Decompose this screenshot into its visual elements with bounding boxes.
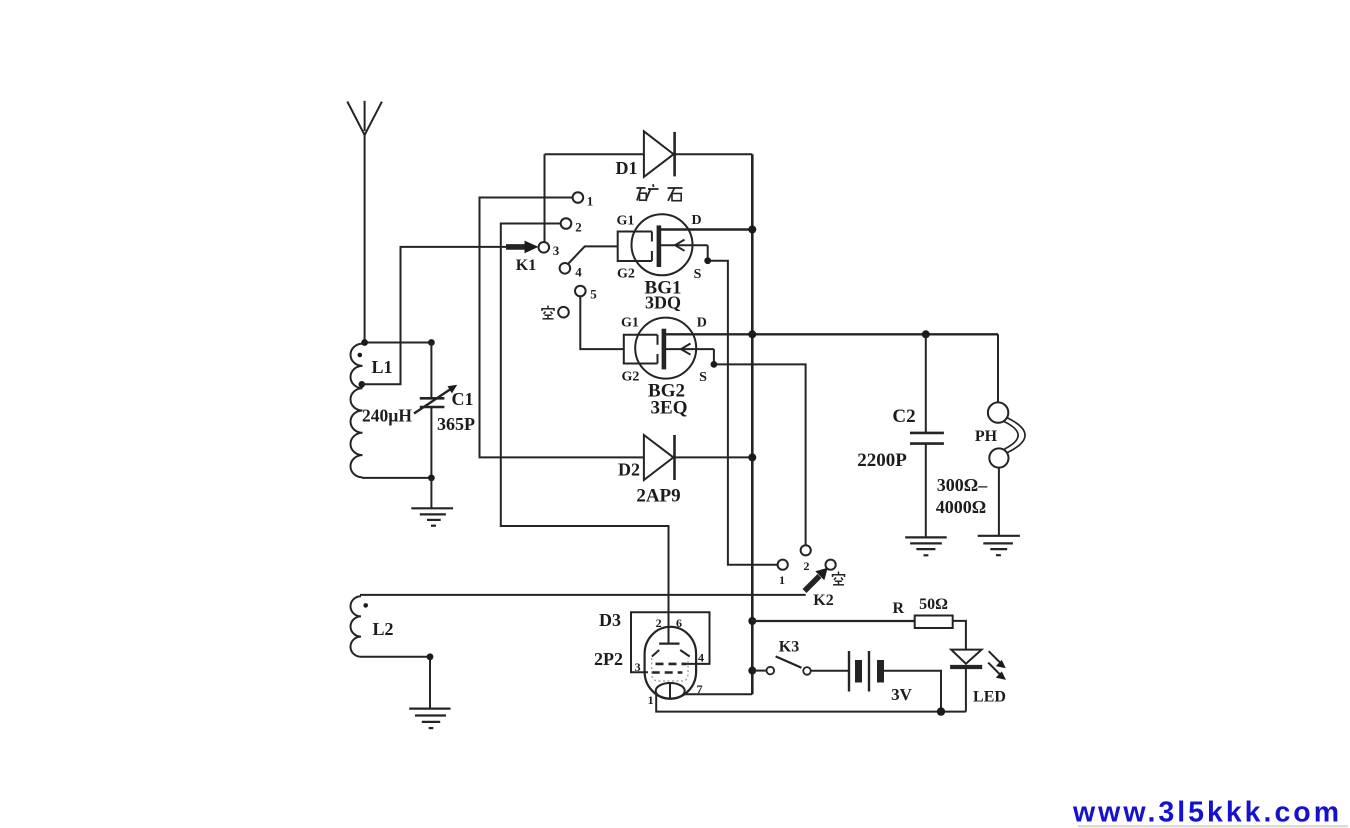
node BG2 drain on bus <box>748 330 756 338</box>
svg-text:G2: G2 <box>617 267 635 282</box>
svg-text:K3: K3 <box>779 639 799 656</box>
wire R to LED <box>953 621 966 650</box>
K2 wiper arrow <box>805 568 828 591</box>
svg-text:5: 5 <box>590 287 597 302</box>
LED <box>950 650 1006 712</box>
capacitor C1 (variable) <box>414 343 457 478</box>
switch K2 contact 2 <box>801 545 811 555</box>
transistor BG1 (dual-gate FET) <box>618 214 752 275</box>
svg-text:3V: 3V <box>891 685 913 704</box>
svg-text:G1: G1 <box>617 214 635 229</box>
node D2 cathode on bus <box>748 453 756 461</box>
svg-text:C2: C2 <box>892 406 915 427</box>
svg-text:4000Ω: 4000Ω <box>936 497 986 517</box>
svg-text:G2: G2 <box>622 370 640 385</box>
switch K1 contact 3 <box>539 242 550 253</box>
wire battery to bottom node <box>884 671 941 712</box>
svg-text:G1: G1 <box>621 316 639 331</box>
node L1 tap <box>359 381 366 388</box>
svg-text:K2: K2 <box>813 592 833 609</box>
wire L1/C1 bottom <box>362 477 431 479</box>
svg-text:3DQ: 3DQ <box>645 293 681 313</box>
svg-text:1: 1 <box>779 573 785 587</box>
node BG2 source corner <box>711 361 718 368</box>
svg-text:L2: L2 <box>372 619 393 639</box>
node L2 ground corner <box>427 653 434 660</box>
inductor L1 <box>351 344 363 478</box>
svg-text:LED: LED <box>973 689 1006 706</box>
node K3 branch on bus <box>748 667 756 675</box>
svg-text:D: D <box>697 316 707 331</box>
ground (C2) <box>905 537 947 555</box>
node C1 bottom <box>428 475 435 482</box>
svg-text:D1: D1 <box>616 158 638 178</box>
switch K1 empty contact 空 <box>558 307 569 318</box>
wire K1-3 to D1 anode <box>544 154 546 242</box>
svg-text:365P: 365P <box>437 414 475 434</box>
wire L1 tap to K1 wiper <box>362 247 508 384</box>
svg-text:1: 1 <box>587 194 594 209</box>
svg-text:L1: L1 <box>371 357 392 377</box>
svg-text:D2: D2 <box>618 460 640 480</box>
node BG1 drain on bus <box>748 226 756 234</box>
switch K1 contact 2 <box>561 218 572 229</box>
svg-text:4: 4 <box>698 651 704 665</box>
wire bus to R <box>752 620 914 622</box>
wire L2 bottom to ground <box>361 657 430 709</box>
ground (L1/C1) <box>411 508 453 525</box>
capacitor C2 <box>910 334 944 537</box>
svg-text:2200P: 2200P <box>857 450 907 471</box>
node battery/LED bottom junction <box>937 707 945 715</box>
antenna <box>347 101 382 343</box>
wire L2 top to K2 wiper <box>360 594 806 596</box>
svg-text:50Ω: 50Ω <box>919 596 948 613</box>
headphone PH <box>988 334 1025 536</box>
ground (L2) <box>409 709 450 729</box>
resistor R <box>915 616 953 629</box>
wire K1-1 to D2 anode <box>480 198 644 458</box>
wire C1 to ground <box>430 478 432 508</box>
node C2 top junction <box>922 330 930 338</box>
svg-text:S: S <box>699 370 707 385</box>
wire main bus (right vertical) <box>751 154 754 694</box>
svg-text:4: 4 <box>575 265 582 280</box>
wire K1-2 to D3 plate <box>501 224 669 644</box>
node antenna/L1 junction <box>361 339 368 346</box>
diode D2 <box>644 435 752 480</box>
wire D3 pin7 to bus <box>685 693 753 695</box>
svg-text:6: 6 <box>676 616 682 630</box>
svg-text:PH: PH <box>975 428 998 445</box>
svg-text:2AP9: 2AP9 <box>636 486 680 507</box>
svg-text:300Ω–: 300Ω– <box>937 475 988 495</box>
svg-text:S: S <box>694 267 702 282</box>
svg-text:R: R <box>893 600 905 617</box>
svg-text:1: 1 <box>648 693 654 707</box>
矿石 label (crystal) <box>637 184 683 201</box>
battery 3V <box>849 651 881 692</box>
空 character (K2) <box>833 572 845 585</box>
空 character (K1) <box>542 306 554 319</box>
switch K3 <box>752 656 811 674</box>
svg-text:2: 2 <box>575 220 582 235</box>
svg-text:D: D <box>691 213 701 228</box>
svg-text:240µH: 240µH <box>362 406 412 426</box>
svg-text:3EQ: 3EQ <box>651 398 688 419</box>
node BG1 source corner <box>704 257 711 264</box>
wire BG1 source to K2-1 <box>708 245 778 565</box>
diode D1 <box>545 131 753 177</box>
svg-text:www.3l5kkk.com: www.3l5kkk.com <box>1072 797 1342 828</box>
svg-text:2: 2 <box>804 559 810 573</box>
switch K1 contact 5 <box>575 286 586 297</box>
wire K3 to battery <box>811 670 849 672</box>
wire K1-4 to BG1 gate <box>568 246 618 264</box>
switch K1 contact 1 <box>573 192 584 203</box>
svg-text:3: 3 <box>635 660 641 674</box>
svg-text:K1: K1 <box>516 257 536 274</box>
switch K1 contact 4 <box>560 263 571 274</box>
L2 winding start dot <box>363 603 368 608</box>
wire BG2 source to K2-2 <box>714 349 806 545</box>
svg-text:2: 2 <box>656 616 662 630</box>
wire L1 top (antenna to C1) <box>365 342 432 344</box>
svg-text:D3: D3 <box>599 610 621 630</box>
transistor BG2 (dual-gate FET) <box>624 318 998 379</box>
wire D3 pin1 to battery negative <box>656 694 966 712</box>
svg-text:3: 3 <box>553 243 560 258</box>
node C1 top junction <box>428 339 435 346</box>
K1 wiper arrow <box>506 241 539 254</box>
node R branch on bus <box>748 617 756 625</box>
wire K1-5 to BG2 gate <box>580 296 624 349</box>
svg-text:2P2: 2P2 <box>594 649 623 669</box>
switch K2 empty contact 空 <box>826 560 836 570</box>
svg-text:C1: C1 <box>452 389 474 409</box>
ground (PH) <box>978 536 1020 555</box>
switch K2 contact 1 <box>778 560 788 570</box>
L1 winding start dot <box>358 353 363 358</box>
inductor L2 <box>350 596 361 657</box>
vacuum tube D3 (2P2) <box>631 526 710 700</box>
